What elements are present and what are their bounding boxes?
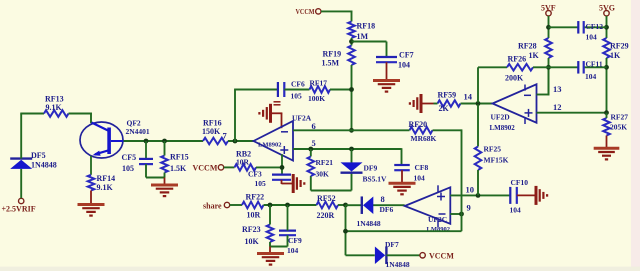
label CF3: [248, 170, 266, 189]
svg-text:12: 12: [553, 102, 562, 112]
wire RF22 to RF52: [264, 204, 317, 206]
wire +2.5VRIF to DF5: [20, 169, 22, 198]
svg-text:VCCM: VCCM: [193, 164, 218, 173]
svg-text:MR68K: MR68K: [411, 134, 437, 143]
label CF7: [398, 51, 414, 70]
label DF6: [357, 205, 394, 228]
svg-text:205K: 205K: [610, 123, 627, 132]
label DF7: [385, 240, 410, 269]
pin 14 label: [464, 92, 473, 102]
wire 5VF rail: [548, 16, 550, 38]
wire CF9 leads: [287, 205, 289, 247]
svg-text:RF26: RF26: [508, 55, 527, 64]
diode DF6: [362, 196, 374, 214]
wire branch to CF7: [352, 42, 387, 58]
label RF14: [97, 174, 116, 192]
wire RF28 down: [548, 58, 550, 95]
label RF17: [308, 79, 327, 104]
capacitor CF8: [394, 165, 410, 170]
wire CF7 to ground: [386, 62, 388, 80]
svg-text:1.5M: 1.5M: [322, 59, 340, 68]
svg-text:10K: 10K: [245, 237, 260, 246]
wire CF8 to ground: [401, 170, 403, 183]
wire ground stem CF9: [269, 247, 271, 254]
svg-text:104: 104: [510, 206, 522, 215]
wire CF10 to ground: [517, 194, 537, 196]
transistor QF2: [80, 122, 124, 175]
pin 9 stub: [450, 213, 462, 215]
wire CF8 lead: [401, 148, 403, 165]
label LM8902 UF2A: [258, 142, 281, 149]
svg-text:6: 6: [312, 121, 316, 131]
svg-text:MF15K: MF15K: [484, 156, 509, 165]
ground beside CF3: [282, 174, 305, 193]
port VCCM bottom: [420, 252, 454, 261]
svg-text:5: 5: [312, 138, 316, 148]
svg-text:10: 10: [466, 185, 475, 195]
label RF22: [246, 193, 265, 220]
wire pin14 down to RF25: [477, 104, 479, 146]
resistor RF19: [348, 46, 355, 66]
svg-text:1M: 1M: [357, 32, 369, 41]
svg-text:RF17: RF17: [310, 79, 328, 88]
label RF15: [170, 153, 189, 174]
label RF26: [505, 55, 526, 83]
svg-text:RF18: RF18: [357, 22, 376, 31]
label RF29: [610, 42, 629, 61]
resistor RB2: [235, 164, 257, 171]
label LM8902 UF2D: [490, 124, 516, 132]
wire CF6 to RF17: [284, 89, 309, 91]
svg-text:UF2A: UF2A: [292, 114, 312, 123]
wire RF23 leads: [270, 205, 288, 247]
wire RF59 to UF2D pin 14: [434, 103, 493, 105]
port share: [203, 202, 230, 211]
wire RF18 to RF19: [351, 38, 353, 46]
capacitor CF12 leads: [549, 26, 607, 28]
pin 6 label: [312, 121, 316, 131]
svg-text:30K: 30K: [316, 170, 330, 179]
wire pin7 up to CF6: [234, 90, 278, 142]
capacitor CF7: [376, 57, 397, 62]
label CF10: [510, 178, 529, 215]
svg-text:150K: 150K: [202, 127, 221, 136]
svg-text:RF22: RF22: [246, 193, 265, 202]
node CF11 right: [604, 65, 609, 70]
svg-text:DF7: DF7: [385, 240, 399, 249]
resistor RF16: [203, 138, 228, 145]
capacitor CF10: [510, 187, 517, 204]
resistor RF22: [242, 202, 264, 209]
label RB2: [236, 150, 251, 167]
pin 9 label: [467, 203, 471, 213]
label UF2A: [292, 114, 312, 123]
wire CF5 lead: [145, 141, 147, 159]
label UF2D: [491, 113, 511, 122]
pin 12 wire: [537, 112, 608, 114]
svg-text:9.1K: 9.1K: [46, 103, 63, 112]
pin 12 label: [553, 102, 562, 112]
label RF27: [610, 113, 628, 132]
svg-text:CF7: CF7: [399, 51, 414, 60]
pin 13 wire: [537, 67, 550, 94]
svg-text:1K: 1K: [529, 51, 540, 60]
svg-text:DF6: DF6: [380, 205, 394, 214]
svg-text:RF19: RF19: [323, 50, 342, 59]
svg-text:VCCM: VCCM: [296, 7, 315, 16]
node CF11 left: [546, 65, 551, 70]
label DF9: [363, 164, 388, 184]
wire share to RF22: [230, 204, 242, 206]
svg-text:LM8902: LM8902: [490, 124, 516, 132]
wire DF7 to VCCM port: [386, 254, 420, 256]
wire 5VG rail: [606, 16, 608, 38]
op-amp UF2C: [405, 185, 451, 227]
port VCCM top: [296, 7, 321, 16]
svg-text:RF23: RF23: [242, 225, 261, 234]
diode DF7 lead: [346, 254, 375, 256]
svg-text:104: 104: [287, 246, 299, 255]
wire RF16 to UF2A pin7: [228, 140, 254, 142]
resistor RF29: [603, 38, 610, 58]
label QF2: [126, 119, 150, 137]
diode DF9: [341, 162, 363, 172]
svg-text:104: 104: [398, 61, 410, 70]
svg-text:2K: 2K: [439, 104, 450, 113]
node RB2 junction: [280, 165, 285, 170]
wire RF29 down: [606, 58, 608, 114]
ground under CF8: [389, 183, 416, 194]
svg-text:9.1K: 9.1K: [97, 183, 114, 192]
node pin10 junction: [476, 193, 481, 198]
svg-text:DF5: DF5: [31, 151, 46, 160]
wire RF13 to QF2 collector: [69, 113, 92, 124]
port 5VF: [541, 4, 556, 16]
resistor RF17: [310, 86, 331, 93]
wire pin14 up to RF26: [478, 67, 507, 102]
ground beside RF59: [410, 94, 434, 113]
svg-text:2N4401: 2N4401: [126, 127, 150, 136]
resistor RF18: [348, 22, 355, 39]
wire RF52 to DF6 junction: [338, 204, 346, 206]
label RF25: [484, 145, 509, 165]
svg-text:9: 9: [467, 203, 471, 213]
label RF19: [322, 50, 342, 68]
svg-text:1.5K: 1.5K: [170, 164, 187, 173]
wire RF19 down: [351, 65, 353, 131]
wire share junction down: [345, 205, 347, 255]
ground under RF14: [78, 205, 105, 216]
resistor RF27: [603, 118, 610, 136]
ground under CF5 RF15: [151, 185, 178, 196]
svg-text:10R: 10R: [236, 157, 250, 166]
svg-text:105: 105: [122, 164, 134, 173]
svg-text:104: 104: [585, 72, 597, 81]
label RF52: [317, 194, 336, 220]
node RF17 junction: [349, 87, 354, 92]
capacitor CF5: [139, 159, 153, 164]
label CF5: [122, 153, 137, 173]
svg-text:1N4848: 1N4848: [31, 161, 57, 170]
resistor RF26: [507, 64, 533, 71]
svg-text:CF11: CF11: [586, 60, 603, 69]
label RF59: [438, 91, 457, 114]
label LM8902 UF2C: [427, 226, 450, 233]
wire VCCM to RF18: [321, 11, 352, 22]
label RF23: [242, 225, 261, 246]
node pin14 junction: [476, 101, 481, 106]
wire RB2 to junction: [256, 166, 282, 168]
resistor RF21: [308, 157, 315, 177]
label CF9: [287, 236, 302, 255]
wire RF20 drop to pin9 row: [345, 129, 462, 231]
node RF23 junction: [268, 203, 273, 208]
ground beside CF10: [536, 186, 547, 205]
ground under RF23 CF9: [257, 254, 284, 265]
svg-text:13: 13: [553, 84, 562, 94]
svg-text:1N4848: 1N4848: [386, 260, 410, 269]
ground under RF27: [594, 148, 620, 159]
svg-text:105: 105: [255, 179, 267, 188]
node CF7 branch: [349, 39, 354, 44]
svg-text:200K: 200K: [505, 74, 524, 83]
wire RF14 to ground: [90, 191, 92, 205]
svg-text:1N4848: 1N4848: [357, 219, 381, 228]
wire RF21 branch: [311, 149, 352, 191]
svg-text:CF6: CF6: [291, 80, 305, 89]
svg-text:8: 8: [381, 194, 385, 204]
node share junction: [343, 203, 348, 208]
pin 5 wire: [293, 148, 402, 150]
svg-text:100K: 100K: [308, 94, 325, 103]
svg-text:DF9: DF9: [364, 164, 378, 173]
node CF12 right: [604, 25, 609, 30]
node feedback junction: [343, 229, 348, 234]
wire DF9 top lead: [351, 149, 353, 164]
label RF20: [409, 120, 437, 143]
pin 5 label: [312, 138, 316, 148]
label RF13: [45, 95, 64, 113]
svg-text:VCCM: VCCM: [429, 252, 454, 261]
svg-text:BS5.1V: BS5.1V: [363, 175, 388, 184]
wire RF27 leads: [606, 113, 608, 148]
diode DF6 leads: [346, 204, 405, 206]
capacitor CF11 leads: [549, 66, 607, 68]
svg-text:RF21: RF21: [316, 158, 334, 167]
capacitor CF6: [278, 82, 284, 97]
svg-text:CF5: CF5: [122, 153, 137, 162]
wire VCCM to RB2: [224, 166, 235, 168]
resistor RF59: [438, 100, 461, 107]
op-amp UF2D: [493, 84, 537, 124]
svg-text:105: 105: [291, 92, 303, 101]
node RF15 junction: [162, 139, 167, 144]
svg-text:10R: 10R: [247, 211, 261, 220]
wire CF5 bottom: [146, 164, 165, 177]
node DF9 junction: [349, 147, 354, 152]
label DF5: [31, 151, 57, 170]
svg-text:RF27: RF27: [611, 113, 629, 122]
capacitor CF12: [578, 21, 583, 34]
svg-text:CF10: CF10: [511, 178, 529, 187]
diode DF7: [375, 247, 387, 264]
right edge band: [631, 0, 640, 271]
svg-text:1K: 1K: [610, 51, 621, 60]
wire RF25 to pin10: [477, 170, 479, 195]
pin 10 wire: [450, 194, 510, 196]
svg-text:UF2D: UF2D: [491, 113, 511, 122]
label RF28: [518, 42, 540, 61]
wire RF17 right: [330, 89, 352, 91]
label RF16: [202, 119, 222, 137]
node CF12 left: [546, 25, 551, 30]
svg-text:RF59: RF59: [438, 91, 457, 100]
port 5VG: [599, 4, 615, 16]
node RF21 junction: [308, 147, 313, 152]
wire RF20 leads: [352, 129, 461, 131]
node CF5 junction: [144, 139, 149, 144]
node pin6 junction: [349, 128, 354, 133]
pin 7 label: [223, 131, 228, 141]
svg-text:LM8902: LM8902: [258, 142, 281, 149]
label CF6: [291, 80, 305, 101]
ground above UF2A: [259, 102, 282, 128]
UF2A bottom power pin: [281, 154, 283, 175]
capacitor CF3: [272, 175, 291, 180]
svg-text:RF52: RF52: [317, 194, 336, 203]
label RF21: [316, 158, 334, 179]
svg-text:CF8: CF8: [415, 163, 429, 172]
svg-text:104: 104: [586, 33, 598, 42]
resistor RF28: [545, 38, 552, 58]
pin 6 wire: [293, 129, 352, 131]
label CF12: [586, 22, 604, 42]
svg-text:RF25: RF25: [484, 145, 502, 154]
label CF11: [585, 60, 603, 82]
node pin9 junction: [459, 212, 464, 217]
op-amp UF2A: [254, 121, 294, 161]
resistor RF13: [44, 110, 69, 117]
wire RF26 to rail: [533, 66, 549, 68]
svg-text:share: share: [203, 202, 222, 211]
svg-text:RF29: RF29: [610, 42, 629, 51]
svg-text:RF14: RF14: [97, 174, 116, 183]
resistor RF23: [267, 225, 274, 243]
pin 10 label: [466, 185, 475, 195]
capacitor CF11: [578, 61, 583, 74]
svg-text:14: 14: [464, 92, 473, 102]
wire DF5 to RF13: [20, 114, 44, 159]
wire RF15 leads: [164, 141, 166, 178]
ground under CF7: [373, 81, 400, 92]
capacitor CF9: [279, 231, 296, 236]
svg-text:UF2C: UF2C: [428, 215, 447, 224]
node pin12 junction: [604, 110, 609, 115]
diode DF5: [10, 159, 32, 169]
svg-text:CF9: CF9: [288, 236, 302, 245]
resistor RF14: [88, 175, 95, 191]
port VCCM mid: [193, 164, 224, 173]
resistor RF20: [410, 127, 433, 134]
svg-text:CF3: CF3: [248, 170, 262, 179]
port +2.5VRIF: [2, 198, 36, 213]
node pin7 junction: [233, 139, 238, 144]
svg-text:RF28: RF28: [518, 42, 537, 51]
label UF2C: [428, 215, 447, 224]
node CF9 junction: [285, 203, 290, 208]
label RF18: [357, 22, 376, 42]
pin 8 label: [381, 194, 385, 204]
svg-text:220R: 220R: [317, 211, 335, 220]
svg-text:RF20: RF20: [409, 120, 428, 129]
wire QF2 base row: [124, 140, 204, 142]
svg-text:+2.5VRIF: +2.5VRIF: [2, 205, 36, 214]
svg-text:RF15: RF15: [170, 153, 189, 162]
resistor RF25: [475, 147, 482, 171]
wire to ground stem: [164, 178, 166, 186]
resistor RF52: [317, 202, 339, 209]
pin 13 label: [553, 84, 562, 94]
resistor RF15: [161, 156, 168, 173]
bottom edge band: [0, 267, 640, 271]
svg-text:104: 104: [414, 174, 426, 183]
label CF8: [414, 163, 429, 183]
svg-text:CF12: CF12: [586, 22, 604, 31]
